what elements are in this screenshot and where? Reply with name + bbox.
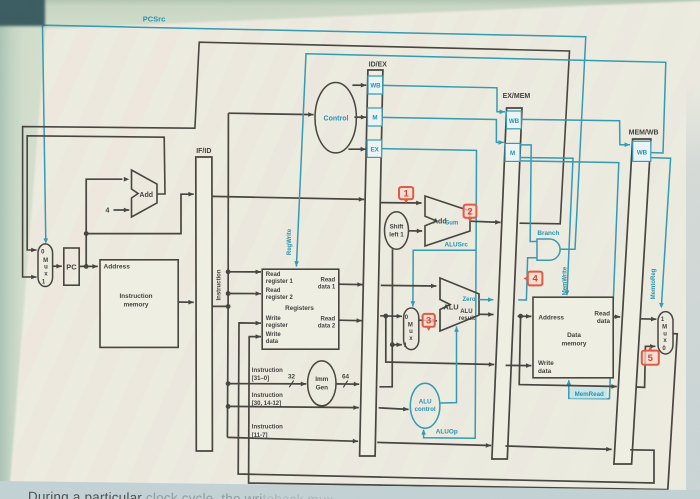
wire PC+4 feedback from Add to PC mux input 0 <box>27 136 165 253</box>
marker L4 on Zero wire <box>524 272 543 286</box>
bus instruction vertical distribution <box>227 113 228 437</box>
svg-text:WB: WB <box>370 83 381 90</box>
svg-text:RegWrite: RegWrite <box>287 228 293 255</box>
svg-text:IF/ID: IF/ID <box>196 148 211 155</box>
arrowhead MemtoReg into writeback mux <box>659 303 664 308</box>
oval Shift left 1 <box>385 212 409 250</box>
svg-text:M: M <box>510 150 515 157</box>
svg-text:Read: Read <box>266 272 281 278</box>
svg-text:[30, 14-12]: [30, 14-12] <box>252 401 281 407</box>
block data memory <box>533 297 613 378</box>
wire instruction from IF/ID to distribution node <box>212 305 228 307</box>
svg-text:Read: Read <box>321 277 336 283</box>
wire ALU result bypass below data memory to MEM/WB <box>519 316 617 389</box>
wire instruction memory output to IF/ID <box>178 300 194 305</box>
svg-text:data: data <box>597 318 611 325</box>
control box M in ID/EX <box>368 108 383 126</box>
arrowhead PC into Add top input <box>124 177 129 182</box>
svg-text:EX: EX <box>370 146 379 153</box>
svg-text:Gen: Gen <box>316 384 329 391</box>
svg-text:Read: Read <box>321 316 336 322</box>
svg-text:M: M <box>408 322 413 328</box>
svg-text:data 1: data 1 <box>318 284 336 290</box>
control box WB in MEM/WB <box>633 141 651 161</box>
svg-text:64: 64 <box>342 374 350 381</box>
svg-text:3: 3 <box>426 316 431 327</box>
bus width tick 64 <box>343 381 347 388</box>
svg-text:Write: Write <box>538 360 554 367</box>
svg-text:control: control <box>415 406 436 413</box>
wire instruction[30,14-12] from ID/EX to ALU control <box>379 407 409 412</box>
svg-text:32: 32 <box>288 373 296 380</box>
junction instr imm <box>226 381 231 386</box>
wire ALU result EX/MEM to data memory address and bypass <box>518 314 532 319</box>
svg-text:Read: Read <box>594 310 610 317</box>
wire PCSrc control line from branch AND gate to PC mux select <box>43 25 586 249</box>
bottom caption text <box>28 489 700 499</box>
wire read data 2 to ID/EX <box>339 318 362 323</box>
pipeline register IF/ID <box>196 157 213 451</box>
svg-text:WB: WB <box>637 150 648 157</box>
svg-text:4: 4 <box>106 208 110 215</box>
bus width tick 32 <box>289 380 293 387</box>
wire PC mux output to PC <box>53 264 62 269</box>
svg-text:MemRead: MemRead <box>575 391 604 398</box>
wire ALUSrc branch to EX mux select <box>411 250 477 306</box>
svg-text:ALU: ALU <box>419 398 432 405</box>
svg-text:u: u <box>409 329 413 335</box>
wire immediate from ID/EX up to Shift left 1 and EX mux input 1 <box>379 249 392 386</box>
oval Control unit <box>315 83 356 153</box>
wire branch Add result to EX/MEM <box>470 220 501 225</box>
wire read data 1 from ID/EX to ALU <box>381 284 437 289</box>
wire read data MEM/WB to writeback mux input 1 <box>641 317 657 322</box>
wire PC output to instruction memory address <box>79 264 98 269</box>
svg-text:Instruction: Instruction <box>252 368 283 374</box>
wire MemWrite EX/MEM to data memory <box>520 158 573 295</box>
svg-text:Imm: Imm <box>315 376 328 383</box>
svg-text:ID/EX: ID/EX <box>369 62 388 69</box>
wire Control to ID/EX M <box>354 115 366 120</box>
dark screen corner at top-left <box>0 0 45 26</box>
wire Control to ID/EX EX <box>348 147 366 152</box>
svg-text:Control: Control <box>324 115 349 122</box>
svg-text:1: 1 <box>403 188 409 199</box>
arrowhead PCSrc into PC mux select <box>44 238 49 243</box>
wire write data from writeback mux back to Registers write data <box>249 334 678 490</box>
svg-text:[31–0]: [31–0] <box>252 376 269 382</box>
wire read data 2 down to EX/MEM (memory write data) <box>386 316 494 367</box>
pipeline register ID/EX <box>360 70 383 456</box>
svg-text:Shift: Shift <box>390 224 404 231</box>
svg-text:Branch: Branch <box>537 230 559 237</box>
wire branch target feedback from EX/MEM to PC mux input 1 <box>23 42 570 279</box>
wire PC route into IF/ID <box>86 192 194 234</box>
svg-text:ALUSrc: ALUSrc <box>444 241 468 248</box>
wire RegWrite from MEM/WB to Registers <box>294 54 666 267</box>
junction instr RR1 <box>226 269 231 274</box>
wire instruction to read register 1 <box>228 270 261 275</box>
highlight MemRead label background <box>570 387 608 398</box>
wire write register number EX/MEM to MEM/WB segment <box>505 446 611 452</box>
svg-text:ALUOp: ALUOp <box>436 429 458 436</box>
junction PC to IF/ID route <box>84 231 89 236</box>
svg-text:register: register <box>266 323 289 329</box>
pipeline register MEM/WB <box>614 139 651 464</box>
wire M control ID/EX to EX/MEM <box>382 117 504 144</box>
wire write data EX/MEM to data memory <box>506 363 532 368</box>
wire imm into EX mux input 1 <box>392 342 402 347</box>
wire Branch control EX/MEM to AND gate <box>520 145 537 242</box>
svg-text:data: data <box>266 339 279 345</box>
svg-text:data 2: data 2 <box>318 323 336 329</box>
wire Zero flag ALU to EX/MEM <box>479 297 493 302</box>
wire WB control ID/EX to EX/MEM <box>383 85 505 114</box>
svg-text:Instruction: Instruction <box>119 293 152 300</box>
wire MemtoReg from MEM/WB WB to writeback mux select <box>651 158 671 306</box>
mux writeback (1/0) <box>658 312 673 354</box>
svg-text:WB: WB <box>509 118 520 125</box>
wire PC up to Add and IF/ID <box>86 179 122 266</box>
wire EX mux output to ALU <box>419 318 437 323</box>
svg-text:ALU: ALU <box>443 303 458 312</box>
svg-text:Add: Add <box>139 192 153 199</box>
arrowhead MemRead into data memory bottom <box>567 380 572 385</box>
svg-text:Write: Write <box>266 316 282 322</box>
svg-text:Instruction: Instruction <box>252 393 283 399</box>
wire ALUSrc and ALUOp from ID/EX EX box <box>382 149 477 439</box>
wire ALU result MEM/WB to writeback mux input 0 <box>637 344 656 387</box>
wire ALU result to EX/MEM <box>479 312 494 317</box>
wire read data 1 to ID/EX <box>339 282 363 287</box>
wire write register number through pipeline to MEM/WB <box>377 442 491 447</box>
svg-text:Write: Write <box>266 332 282 338</box>
arrowhead ALUOp into ALU control <box>421 429 426 434</box>
wire read data 2 from ID/EX to EX mux and EX/MEM <box>380 314 402 319</box>
pipeline register EX/MEM <box>492 108 522 459</box>
block Registers <box>262 269 339 349</box>
svg-text:u: u <box>44 265 48 271</box>
wire Zero from EX/MEM to AND gate <box>518 258 537 300</box>
svg-text:memory: memory <box>562 341 587 348</box>
control box WB in EX/MEM <box>506 111 521 129</box>
svg-text:EX/MEM: EX/MEM <box>503 93 531 100</box>
junction ALU result <box>518 314 523 319</box>
arrowhead MemWrite into data memory <box>565 290 570 295</box>
svg-text:MemWrite: MemWrite <box>562 266 568 295</box>
svg-text:5: 5 <box>648 353 654 364</box>
marker L2 on branch adder output <box>464 205 477 222</box>
wire Imm Gen output to ID/EX <box>336 382 359 387</box>
junction instr RR2 <box>226 291 231 296</box>
wire instruction[11-7] to ID/EX <box>227 437 358 443</box>
wire PC from ID/EX to branch Add <box>381 201 422 206</box>
wire Shift left 1 output to branch Add <box>409 229 423 234</box>
svg-text:Address: Address <box>104 264 131 271</box>
svg-text:u: u <box>663 331 667 337</box>
junction PC output <box>84 264 89 269</box>
junction instr funct <box>226 404 231 409</box>
junction read data 2 <box>383 314 388 319</box>
control box EX in ID/EX <box>367 140 382 157</box>
svg-text:Read: Read <box>266 288 281 294</box>
marker L5 on writeback mux input 0 <box>642 346 659 364</box>
register PC <box>64 248 79 285</box>
mux PC-source (0/1) before PC <box>38 244 53 287</box>
bottom page strip <box>0 481 700 499</box>
svg-text:4: 4 <box>532 274 538 285</box>
wire instruction[31-0] to Imm Gen <box>228 382 306 387</box>
alu ALU <box>440 278 479 331</box>
oval Imm Gen <box>308 361 336 406</box>
svg-text:M: M <box>372 115 377 122</box>
svg-text:ALU: ALU <box>460 309 472 315</box>
svg-text:Registers: Registers <box>285 305 314 312</box>
mux ALU operand B (0/1) <box>404 308 419 350</box>
block instruction memory <box>100 260 178 348</box>
wire instruction to read register 2 <box>228 291 261 296</box>
wire constant 4 into Add <box>114 208 130 213</box>
adder Add Sum (branch target) <box>425 196 470 246</box>
svg-text:Data: Data <box>567 332 581 339</box>
wire write register number MEM/WB back to Registers write register <box>238 321 654 483</box>
control box WB in ID/EX <box>368 76 383 94</box>
wire instruction[30,14-12] to ID/EX <box>228 405 359 410</box>
wire read data from data memory to MEM/WB <box>613 314 620 319</box>
svg-text:Zero: Zero <box>462 297 475 303</box>
control box M in EX/MEM <box>505 143 520 161</box>
svg-text:M: M <box>43 258 48 264</box>
wire Control to ID/EX WB <box>352 83 366 88</box>
svg-text:Instruction: Instruction <box>216 269 222 300</box>
svg-text:PCSrc: PCSrc <box>143 15 166 24</box>
wire PC from IF/ID to ID/EX <box>212 196 364 201</box>
wire instruction to Control <box>228 112 313 117</box>
svg-text:data: data <box>538 368 552 375</box>
svg-text:Instruction: Instruction <box>252 424 283 430</box>
oval ALU control <box>410 383 440 428</box>
gate AND for branch (Branch AND Zero) <box>537 239 560 260</box>
svg-text:2: 2 <box>467 206 472 217</box>
svg-text:M: M <box>662 325 667 331</box>
junction instruction tee <box>226 304 231 309</box>
junction imm to mux <box>390 342 395 347</box>
svg-text:left 1: left 1 <box>389 231 404 238</box>
svg-text:MemtoReg: MemtoReg <box>651 268 657 299</box>
svg-text:PC: PC <box>66 263 77 272</box>
adder Add (PC+4) <box>132 170 158 217</box>
marker L3 on EX mux to ALU wire <box>423 314 435 331</box>
wire MemRead EX/MEM to data memory bottom <box>520 161 619 399</box>
svg-text:[11-7]: [11-7] <box>252 433 268 439</box>
svg-text:memory: memory <box>124 302 149 309</box>
wire WB control EX/MEM to MEM/WB <box>521 119 630 147</box>
marker L1 on PC-to-Add wire <box>399 187 413 203</box>
svg-text:register 2: register 2 <box>266 295 294 301</box>
svg-text:Sum: Sum <box>445 221 458 227</box>
svg-text:register 1: register 1 <box>266 279 294 285</box>
svg-text:Address: Address <box>538 315 564 322</box>
svg-text:result: result <box>459 316 475 322</box>
wire ALU control to ALU <box>440 326 459 403</box>
svg-text:MEM/WB: MEM/WB <box>629 129 659 136</box>
